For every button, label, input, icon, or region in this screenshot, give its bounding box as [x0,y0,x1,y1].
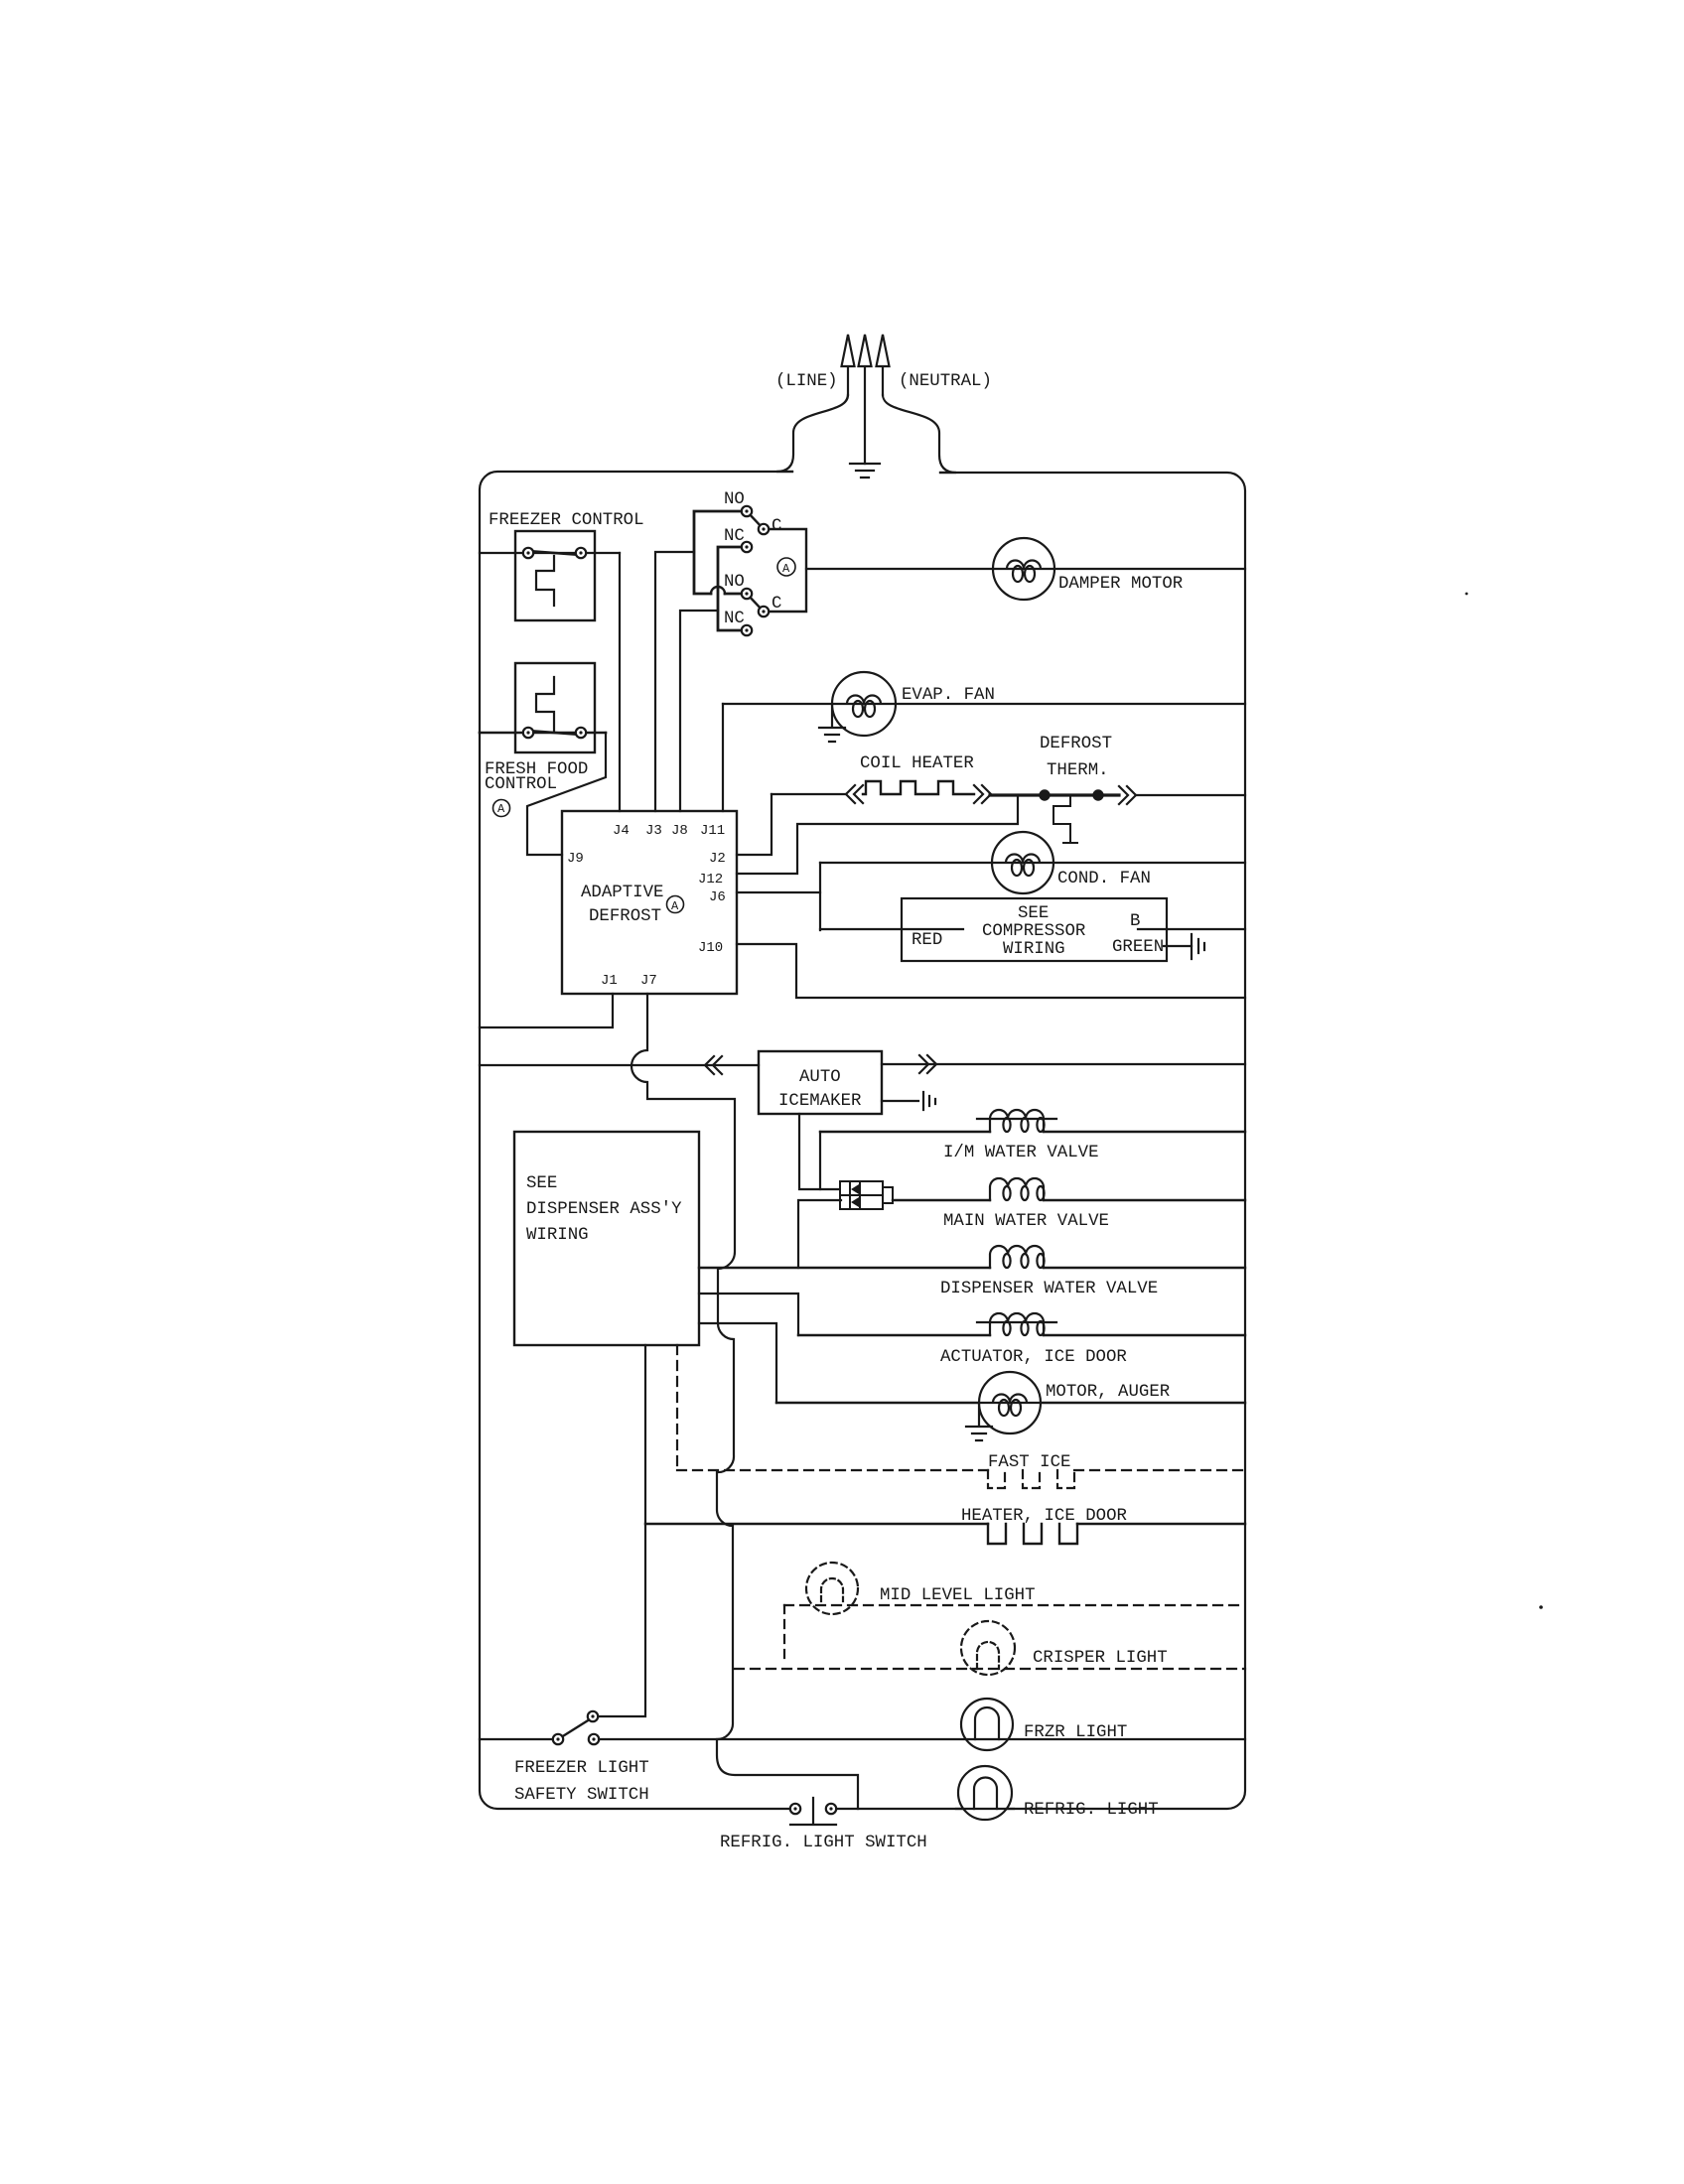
wire: I/M water valve line [820,1131,1245,1133]
svg-text:J1: J1 [601,973,618,989]
defrost therm sensing dangle [1053,795,1077,843]
svg-text:J8: J8 [671,823,688,839]
fresh food control internal sensing element [536,677,554,731]
svg-text:(LINE): (LINE) [775,372,838,391]
defrost therm terminal dot 1 [1040,790,1049,799]
wire: J1 to line bus [480,994,613,1027]
svg-text:(NEUTRAL): (NEUTRAL) [899,372,992,391]
wire: line-bus to fresh food control [480,732,606,735]
wire: J2 riser [737,794,772,855]
speck [1466,593,1469,596]
wire: fast ice dashed riser from dispenser box [676,1345,678,1468]
svg-text:J12: J12 [698,872,723,887]
safety switch blade [558,1717,593,1739]
svg-text:SEE: SEE [526,1174,557,1193]
svg-text:NO: NO [724,573,745,592]
svg-text:I/M WATER VALVE: I/M WATER VALVE [943,1144,1099,1162]
wire: icemaker to neutral bus [882,1063,1245,1065]
svg-text:C: C [772,517,781,536]
svg-text:DEFROST: DEFROST [1040,735,1112,753]
connector chevrons (right) [974,785,991,803]
wire: heater/safety riser from dispenser box [599,1345,645,1716]
svg-text:WIRING: WIRING [1003,940,1065,959]
adaptive defrost box [562,811,737,994]
wire: fast ice dashed line [677,1469,1245,1471]
evap fan winding [833,696,895,705]
wire: icemaker ground lead [882,1100,918,1102]
refrig light bulb [958,1766,1012,1820]
switch A blade 2 (NO2-C2) [747,594,764,612]
wire: switch A output to damper motor to neutral bus [806,568,1245,570]
connector chevrons (icemaker left) [705,1056,722,1074]
NEUTRAL plug prong arrow [877,335,890,395]
svg-text:REFRIG. LIGHT: REFRIG. LIGHT [1024,1801,1159,1820]
wire: NC bus (NC1 to NC2) [718,547,747,630]
safety switch terminal upper [588,1711,598,1721]
wire: dashed link mid level to crisper [783,1605,785,1658]
wire: RED lead into compressor box [820,928,963,930]
connector chevrons (left) [846,785,863,803]
svg-text:MAIN WATER VALVE: MAIN WATER VALVE [943,1212,1109,1231]
wire: I/M water valve riser from connector [819,1132,821,1189]
svg-text:A: A [497,802,505,816]
refrig light switch terminal left [790,1804,800,1814]
freezer control terminal left [523,548,533,558]
wire: connector row2 to dispenser-valve feed [798,1200,841,1268]
svg-text:WIRING: WIRING [526,1226,589,1245]
dispenser water valve solenoid coil [990,1246,1044,1268]
svg-text:DISPENSER ASS'Y: DISPENSER ASS'Y [526,1200,682,1219]
svg-text:HEATER, ICE DOOR: HEATER, ICE DOOR [961,1507,1127,1526]
wire: actuator ice door line [798,1334,1245,1336]
svg-text:DAMPER MOTOR: DAMPER MOTOR [1058,575,1183,594]
svg-text:J6: J6 [709,889,726,905]
svg-text:J7: J7 [640,973,657,989]
wire: cond fan line to neutral bus [820,862,1245,864]
ground plug prong arrow [859,335,872,464]
svg-text:MOTOR, AUGER: MOTOR, AUGER [1046,1383,1170,1402]
ground (icemaker) [923,1092,935,1110]
wire: J6 lead [737,891,820,893]
svg-text:REFRIG. LIGHT SWITCH: REFRIG. LIGHT SWITCH [720,1834,927,1852]
svg-text:GREEN: GREEN [1112,938,1164,957]
actuator ice door solenoid coil [977,1313,1056,1335]
svg-text:J9: J9 [567,851,584,867]
fresh food control terminal left [523,728,533,738]
wire: J10 line to neutral bus [737,944,1245,998]
terminal NO2 [742,589,752,599]
freezer control terminal right [576,548,586,558]
wire: J7 long drop with crossover hops [631,994,858,1809]
wire: cond fan / compressor splitter [819,863,821,930]
wire: actuator feed from dispenser box [699,1294,798,1335]
refrig light switch terminal right [826,1804,836,1814]
wire: NO bus (NO1 to NO2) [694,511,747,594]
freezer control switch blade [528,551,581,555]
connector chevrons (right, to neutral) [1119,786,1136,804]
ground (evap fan) [819,706,845,742]
wire: evap fan line to neutral bus [723,703,1245,705]
svg-text:DEFROST: DEFROST [589,907,661,926]
svg-text:J2: J2 [709,851,726,867]
svg-text:A: A [782,562,790,576]
svg-text:FREEZER CONTROL: FREEZER CONTROL [489,511,644,530]
switch A housing box [764,529,806,612]
damper motor circle [993,538,1054,600]
svg-text:J4: J4 [613,823,630,839]
svg-text:FREEZER LIGHT: FREEZER LIGHT [514,1759,649,1778]
speck [1539,1605,1543,1609]
switch A blade 1 (NO1-C1) [747,511,764,529]
svg-text:MID LEVEL LIGHT: MID LEVEL LIGHT [880,1586,1036,1605]
circled A callout (fresh food control) [493,800,510,817]
wire: dispenser water valve line [699,1267,1245,1269]
wire: main water valve line [893,1199,1245,1201]
mid level light bulb (dashed) [806,1563,858,1614]
svg-text:SAFETY SWITCH: SAFETY SWITCH [514,1786,649,1805]
coil heater resistor element [863,781,974,794]
svg-text:J11: J11 [700,823,725,839]
svg-text:B: B [1130,912,1140,931]
wire: icemaker line feed from line bus [480,1064,759,1066]
terminal NC2 [742,625,752,635]
svg-text:ADAPTIVE: ADAPTIVE [581,884,664,902]
wire: defrost thermostat segment [990,793,1119,796]
svg-text:FRZR LIGHT: FRZR LIGHT [1024,1723,1127,1742]
wire: J8 riser to NC bus [680,611,718,811]
fast ice heater element (dashed) [988,1470,1074,1488]
wire: J3 riser to NO bus [655,552,694,811]
refrig light switch plunger [790,1798,836,1825]
svg-text:COIL HEATER: COIL HEATER [860,754,974,773]
svg-text:EVAP. FAN: EVAP. FAN [902,686,995,705]
svg-text:ACTUATOR, ICE DOOR: ACTUATOR, ICE DOOR [940,1348,1127,1367]
svg-text:NC: NC [724,610,745,628]
frzr light filament [975,1707,999,1739]
inline connector block [840,1181,883,1209]
safety switch terminal left [553,1734,563,1744]
wire: J11 riser [722,704,724,811]
wire: auger feed from dispenser box [699,1323,776,1403]
svg-text:ICEMAKER: ICEMAKER [778,1092,862,1111]
frzr light bulb [961,1699,1013,1750]
svg-text:FAST ICE: FAST ICE [988,1453,1071,1472]
wire: to neutral bus [1136,794,1245,796]
wire: heater ice door line [645,1523,1245,1525]
cond fan winding [992,855,1053,863]
connector chevrons (icemaker right) [919,1055,936,1073]
wire: J12 riser to therm line [737,795,1018,874]
svg-text:A: A [671,899,679,913]
wire: freezer control to J4 [619,553,621,811]
I/M water valve solenoid coil [977,1110,1056,1132]
svg-text:COND. FAN: COND. FAN [1057,870,1151,888]
wire: bottom line through refrig bulb [956,1808,1014,1810]
svg-text:SEE: SEE [1018,904,1049,923]
damper motor winding [993,561,1054,570]
svg-text:CRISPER LIGHT: CRISPER LIGHT [1033,1649,1168,1668]
wire: frzr light line (left of switch) [480,1738,558,1740]
svg-text:CONTROL: CONTROL [485,775,557,794]
svg-text:THERM.: THERM. [1047,761,1109,780]
svg-text:RED: RED [912,931,942,950]
cond fan motor circle [992,832,1053,893]
ground (motor auger) [966,1404,992,1440]
fresh food control terminal right [576,728,586,738]
circled A callout (adaptive defrost) [667,896,684,913]
svg-text:NC: NC [724,527,745,546]
wire: heater feed [772,793,846,795]
heater ice door element [988,1524,1077,1544]
auto icemaker box [759,1051,882,1114]
wire: line lead S-curve into border [776,395,848,472]
freezer control box [515,531,595,620]
svg-text:COMPRESSOR: COMPRESSOR [982,922,1085,941]
terminal NC1 [742,542,752,552]
circled A callout (switch A) [777,558,795,576]
terminal C2 [759,607,769,616]
LINE plug prong arrow [842,335,855,395]
evap fan motor circle [832,672,896,736]
fresh food control switch blade [528,731,581,735]
fresh food control box [515,663,595,752]
compressor wiring box [902,898,1167,961]
wire: outer loop left side and bottom-left [480,472,792,1809]
defrost therm terminal dot 2 [1093,790,1102,799]
refrig light filament [974,1778,997,1810]
wire: crisper light dashed line [735,1668,1245,1670]
svg-text:C: C [772,595,781,614]
wire hop: NO2 lead over NC vertical [711,587,725,594]
wire: neutral lead S-curve into border [883,395,956,473]
wire: icemaker output down to connector [799,1114,841,1189]
wire: mid level light dashed line [784,1604,1245,1606]
wire: GREEN lead [1164,945,1192,947]
wire: outer loop right side and bottom-right [834,473,1245,1809]
wire: frzr light line to neutral bus [599,1738,1245,1740]
ground (compressor green) [1192,934,1204,959]
motor auger circle [979,1372,1041,1433]
main water valve solenoid coil [990,1178,1044,1200]
wire: fresh food control to J9 (diagonal jog) [527,733,606,855]
svg-text:J10: J10 [698,940,723,956]
terminal C1 [759,524,769,534]
crisper light bulb (dashed) [961,1621,1015,1675]
wire: B lead to neutral bus [1138,928,1245,930]
safety switch terminal right [589,1734,599,1744]
terminal NO1 [742,506,752,516]
svg-text:DISPENSER WATER VALVE: DISPENSER WATER VALVE [940,1280,1158,1298]
freezer control internal sensing element [536,556,554,606]
ground symbol (mains) [850,464,880,478]
motor auger winding [979,1395,1041,1404]
svg-text:J3: J3 [645,823,662,839]
wire: motor auger line to neutral bus [776,1402,1245,1404]
svg-text:NO: NO [724,490,745,509]
wire: line-bus to freezer control [480,552,620,554]
svg-text:AUTO: AUTO [799,1068,841,1087]
SEE DISPENSER ASSY WIRING box [514,1132,699,1345]
